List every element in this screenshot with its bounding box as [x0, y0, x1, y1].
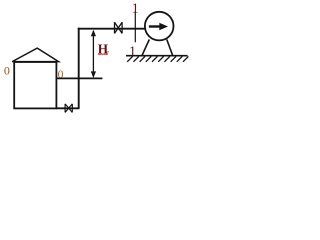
pump P1 casing (circle): [145, 12, 174, 41]
label Hг (geometric head, red): [98, 42, 110, 58]
pump P1 flow arrow: [149, 23, 168, 31]
wire: top discharge pipe to pump: [78, 28, 145, 30]
section line 1-1: [134, 11, 136, 42]
wire: vertical riser pipe: [78, 28, 80, 109]
ground hatching: [127, 56, 188, 61]
tank T1 roof: [12, 48, 58, 62]
svg-text:0: 0: [4, 64, 10, 78]
wire: bottom suction pipe from tank to riser: [56, 107, 80, 109]
ground line: [126, 55, 188, 57]
valve V2 (discharge valve on top pipe): [115, 22, 123, 33]
svg-text:г: г: [106, 48, 110, 57]
valve V1 (suction valve at tank bottom): [65, 104, 72, 113]
dimension arrow Hг (double headed vertical): [91, 30, 96, 78]
wire: datum level line 0-0: [56, 77, 102, 79]
tank T1 body: [14, 62, 56, 108]
svg-text:1: 1: [132, 2, 139, 17]
pump stand right leg: [167, 40, 173, 56]
pump stand left leg: [142, 40, 150, 56]
